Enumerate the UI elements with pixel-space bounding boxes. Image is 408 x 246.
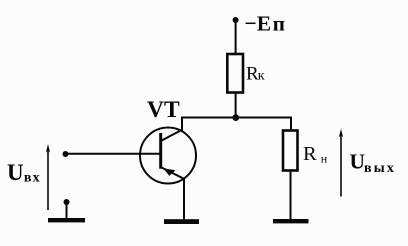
terminal: input lower dot (64, 199, 70, 205)
wire: supply dot down to Rk top (235, 20, 237, 55)
node: -Ep supply terminal dot (233, 17, 239, 23)
wire: collector drop to transistor (181, 117, 183, 131)
transistor VT: base bar (159, 133, 162, 169)
ground: right (under Rn) (273, 219, 309, 223)
resistor Rk body (227, 54, 243, 93)
transistor VT: emitter arrowhead (PNP, points to base) (163, 168, 175, 176)
wire: lower input dot to left ground (66, 202, 68, 219)
wire: Rn bottom to right ground (290, 171, 292, 222)
transistor VT: body circle (140, 128, 196, 184)
wire: base lead from input to transistor (66, 153, 161, 155)
wire: bus down to Rn top (290, 117, 292, 132)
transistor VT: collector diagonal (161, 130, 183, 142)
node: collector junction dot (232, 114, 239, 121)
ground: middle (emitter) (164, 219, 199, 224)
svg-text:−Еп: −Еп (245, 12, 285, 36)
ground: left (input common) (48, 218, 85, 222)
wire: emitter down to middle ground (183, 179, 185, 221)
arrow: Uvyx output voltage arrow (339, 129, 343, 197)
arrow: Uvx input voltage arrow (46, 144, 50, 210)
svg-text:VT: VT (147, 97, 180, 123)
transistor VT: emitter diagonal (162, 168, 185, 179)
wire: Rk bottom to collector junction (235, 93, 237, 118)
terminal: input upper dot (63, 151, 69, 157)
resistor Rn body (283, 131, 298, 171)
wire: horizontal collector bus (181, 117, 292, 119)
